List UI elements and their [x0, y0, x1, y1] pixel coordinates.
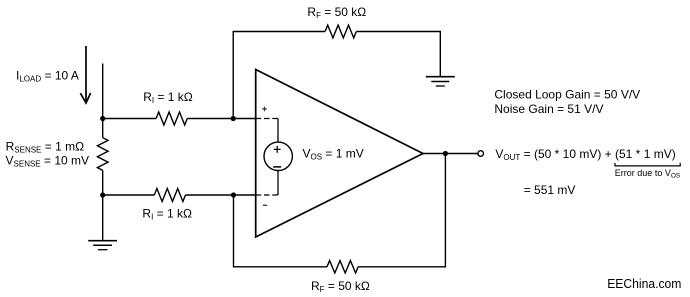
svg-text:Closed Loop Gain = 50 V/V: Closed Loop Gain = 50 V/V — [494, 88, 640, 102]
svg-text:Noise Gain = 51 V/V: Noise Gain = 51 V/V — [494, 102, 603, 116]
svg-text:RI = 1 kΩ: RI = 1 kΩ — [142, 206, 192, 221]
svg-text:VOUT = (50 * 10 mV) + (51 * 1: VOUT = (50 * 10 mV) + (51 * 1 mV) — [495, 147, 675, 162]
svg-text:= 551 mV: = 551 mV — [524, 183, 576, 197]
svg-text:EEChina.com: EEChina.com — [607, 276, 681, 291]
svg-text:RI = 1 kΩ: RI = 1 kΩ — [143, 90, 193, 105]
